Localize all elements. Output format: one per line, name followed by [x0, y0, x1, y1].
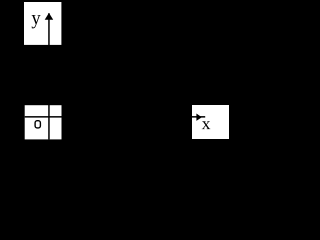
white patch: y-axis label area (top-left) — [24, 2, 61, 45]
x-axis line — [25, 116, 206, 118]
white patch: origin area (bottom-left) — [25, 105, 62, 139]
y-axis arrowhead — [45, 13, 54, 20]
y-axis line — [48, 13, 50, 139]
x-axis arrowhead — [196, 114, 201, 121]
label x — [202, 121, 211, 129]
label y — [32, 15, 41, 28]
label 0 — [35, 121, 40, 128]
white patch: x-axis label area (right) — [192, 105, 229, 139]
